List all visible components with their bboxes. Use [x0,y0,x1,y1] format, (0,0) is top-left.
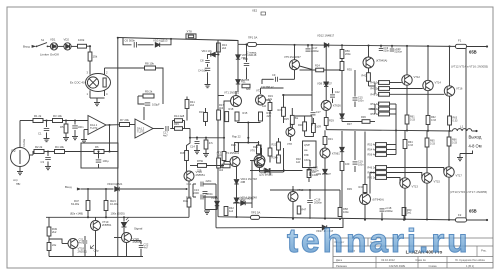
wire C1 down [46,133,48,139]
wire row2 b [44,151,55,153]
wire VD13 to VD14 [236,184,238,197]
wire R56 hang [341,45,343,49]
wire C4 down [98,164,100,168]
wire VD4 to C4a [208,55,211,60]
resistor R41 [297,206,301,214]
resistor R43 [363,185,367,193]
wire P2 bottom [19,167,21,172]
wire corner to VD18 line [215,219,217,228]
svg-text:10 кОм: 10 кОм [23,139,26,147]
wire R30 up [304,116,306,122]
wire VT6 base col [251,160,253,203]
wire stack4 feed v [369,173,371,194]
wire stack2 right a [390,103,397,105]
svg-text:VT16: VT16 [456,87,463,91]
resistor R47 [86,201,90,211]
svg-text:2N5551: 2N5551 [102,223,112,227]
svg-text:22к: 22к [52,243,57,247]
svg-text:VD9 1N4937: VD9 1N4937 [316,172,331,176]
wire R38 up [341,152,343,161]
svg-text:ХЕ2: ХЕ2 [252,9,258,13]
wire DA1.2 out [153,128,164,130]
wire out5 emitter [426,147,428,173]
wire out5 base wire [387,173,422,179]
wire VT5 collector [294,45,296,60]
svg-text:Размана: Размана [336,264,347,268]
wire out6 base wire [387,168,444,172]
capacitor C1 [44,128,50,130]
svg-text:R16: R16 [199,110,204,114]
wire C22 top wire [131,240,141,242]
svg-text:0.33: 0.33 [410,118,415,121]
wire C11C12 right col [215,184,217,219]
connector XT8 [186,34,196,39]
zener VD15 [215,201,219,205]
wire VD16 right [246,202,252,204]
svg-text:Выход: Выход [469,135,482,140]
title block row line 4 [333,262,493,264]
svg-text:R1 2k: R1 2k [34,114,42,118]
ground under C3 [45,167,51,170]
svg-text:C1?: C1? [316,110,321,114]
fuse F2 [456,218,467,222]
resistor R8 [145,66,156,70]
svg-text:3: 3 [87,71,89,75]
svg-text:R6: R6 [95,145,99,149]
svg-text:1: 1 [87,92,89,96]
resistor R57c [376,176,387,180]
node VD9 rail [324,218,326,220]
wire R27 up [291,108,293,115]
terminal +65V [486,45,488,47]
svg-text:VD2: VD2 [64,37,70,41]
node signal entry [196,137,198,139]
zener VD14 [234,198,238,202]
wire node to VD4 [215,54,218,56]
node feedback tap [108,124,110,126]
svg-text:VD3 КД513: VD3 КД513 [153,39,168,43]
title block divider d [417,257,419,269]
wire out4 base wire [387,178,401,184]
resistor R9 [143,94,154,98]
capacitor C22b [330,95,335,97]
inductor L1 [453,129,472,131]
wire stack2 tap [369,108,376,110]
op-amp DA1.1 output wire [106,124,120,126]
wire VT9 emitter up [324,145,326,149]
node limiter [89,45,91,47]
title block divider right [476,246,478,257]
wire emitter join [237,122,261,124]
svg-text:VD10 КД521: VD10 КД521 [107,182,123,186]
resistor R62 [426,116,430,125]
wire VAS vert 283 [283,95,285,107]
node row1 c [65,119,67,121]
ground under P2 [17,172,23,175]
diode VD18 [322,225,326,229]
svg-text:4н7: 4н7 [144,245,149,249]
capacitor C3 [45,157,51,159]
wire FNC drop [105,189,107,201]
svg-text:100к: 100к [343,210,349,214]
wire R4 to opto pin [89,61,91,69]
wire R47 to rail [87,211,89,218]
wire C9 row [262,78,274,80]
svg-text:КТ626: КТ626 [333,104,341,108]
wire C1 drop [46,121,48,128]
wire emitter center join [247,126,249,138]
node VT5 rail [293,44,295,46]
svg-text:R30: R30 [298,123,303,127]
wire VAS base row [282,94,312,96]
wire VD8 up [325,45,327,81]
node row2 [47,150,49,152]
wire R33 row right [207,165,225,167]
wire R28 down [312,133,314,138]
node rail R60 [403,219,405,221]
transistor VT1 [231,96,242,107]
resistor R51b [379,87,390,91]
svg-text:отгр: отгр [13,179,18,182]
wire VT10 down [292,202,294,219]
wire DA1.2 supply [143,107,145,120]
node stub right [170,38,172,40]
wire switch to VD1 [48,45,51,47]
svg-text:S1: S1 [41,38,45,42]
optocoupler pin 2 wire [104,68,106,74]
wire R66 up [448,131,450,137]
wire VT20 emitter [126,249,128,257]
wire R13 hang [205,138,207,140]
transistor VT6 [254,155,265,166]
wire col342 top [341,59,343,114]
svg-text:15k: 15k [93,55,98,59]
transistor VT14 out [423,80,433,90]
wire R50 down [48,251,50,257]
title block row line 3 [333,256,493,258]
transistor VT9 [320,148,330,158]
node out3 rail [448,45,450,47]
resistor R35 [340,62,344,71]
svg-text:47к: 47к [209,141,214,145]
svg-text:C1: C1 [38,132,42,136]
svg-text:C11: C11 [187,182,192,186]
svg-text:СЗУ2: СЗУ2 [304,160,310,162]
svg-text:R46: R46 [183,199,188,203]
resistor R42t [367,73,371,82]
wire VT3 base [224,161,230,163]
wire C6 stub left [123,38,132,45]
svg-text:ПР2 5А: ПР2 5А [251,211,260,215]
wire clip rail [46,216,130,218]
ground under R13 [203,154,209,157]
wire C14 hang [196,138,198,140]
potentiometer P2 wiper [19,150,21,164]
resistor R51c [379,92,390,96]
wire R19d top [278,138,280,142]
resistor R17 bus [217,110,221,120]
wire R37b down [308,178,310,183]
wire C4a down [207,72,209,84]
svg-text:1 (В 1): 1 (В 1) [466,264,474,268]
transistor VT12 driver [363,57,374,68]
transistor VT15 out [422,173,432,183]
svg-text:R18: R18 [229,107,234,111]
wire out5 collector [426,183,428,219]
wire R5 down [65,133,67,137]
resistor R3b [53,119,63,123]
wire R63 down [449,125,451,131]
transistor VT19 [91,221,101,231]
wire C11 right [203,183,216,185]
svg-text:Вход: Вход [23,45,30,49]
wire VD13 col [236,167,238,180]
wire row1 c [63,120,89,122]
op-amp DA1.1 [88,116,106,135]
wire mid row 190 [270,189,340,191]
wire NFB internal [81,151,94,153]
wire opto to ground [96,98,98,102]
capacitor C11 [201,182,203,187]
node C11 right [215,196,217,198]
wire VT19 up [95,217,97,220]
node output d [395,129,397,131]
resistor R38 [340,162,344,171]
wire C10 hang [246,44,248,62]
optocoupler pin 1 wire [89,90,91,98]
svg-text:100п: 100п [358,99,364,102]
potentiometer P2 [11,148,30,167]
svg-text:0.33: 0.33 [408,144,413,147]
resistor R30 [303,122,307,131]
svg-text:VT17: VT17 [456,174,463,178]
wire out4 collector [404,188,406,219]
wire R5 drop [65,121,67,125]
resistor R27 [290,115,294,124]
diode VD7 [236,80,240,84]
resistor R13 [204,140,208,149]
wire VD10 right [120,188,187,190]
svg-text:R42: R42 [362,74,367,78]
node VT16 base [185,188,187,190]
wire F1 to terminal [467,46,488,48]
node out6 rail [448,219,450,221]
svg-text:100k: 100k [78,38,85,42]
svg-text:(КТ940А): (КТ940А) [373,198,384,202]
transistor VT12 out [402,75,412,85]
wire C8a down [207,64,209,67]
bias block box [303,141,317,168]
node out5 rail [426,218,428,220]
node out4 rail [404,218,406,220]
wire VT9 collector down [324,158,326,169]
resistor R26 [282,107,286,116]
transistor VT11 [360,194,371,205]
resistor R31 [323,137,327,145]
wire R30 down [304,131,306,136]
resistor R19b [268,103,272,111]
svg-text:2: 2 [106,71,108,75]
svg-text:1к0: 1к0 [296,160,301,164]
svg-text:100µ: 100µ [103,159,109,163]
wire C21b down [309,172,311,177]
resistor R65 [425,138,429,147]
wire out2 base wire [390,88,423,90]
transistor VT17 out [444,167,454,177]
wire stack3 join [395,131,397,155]
svg-text:R8 10k: R8 10k [145,62,154,66]
transistor VT16 out [444,86,454,96]
wire R14p right [183,120,185,122]
wire VAS mid bottom row [269,168,271,175]
wire C3 drop [47,152,49,157]
wire VT5 emitter [300,66,313,70]
svg-text:R9 2k: R9 2k [145,90,153,94]
wire opto pin2 to bus [105,67,119,69]
resistor R4b [55,150,65,154]
connector XE2 [261,12,266,15]
ground C13 cluster [204,211,210,214]
wire R45 to VT16 [186,161,188,172]
capacitor C2 [72,126,78,128]
wire L1 to output [472,130,476,132]
svg-text:0.33: 0.33 [430,142,435,145]
node input2 a [87,188,89,190]
wire LED to VT20 [123,228,125,234]
wire stack4 feed [370,172,376,174]
svg-text:VD8 1N4937: VD8 1N4937 [317,82,332,86]
svg-text:R43: R43 [359,185,364,189]
node out1 rail [406,45,408,47]
wire R62 down [427,125,429,131]
wire R49 tap [49,239,62,244]
wire VD16 left [233,202,240,204]
wire C16 up [309,190,311,199]
wire clip rail to VT16 [130,216,189,218]
svg-text:100n: 100n [78,125,84,129]
wire stack3 left [375,145,377,155]
svg-text:2200: 2200 [193,191,199,195]
wire C22b down [332,99,334,104]
svg-text:R24: R24 [315,63,320,67]
clip arrow [91,245,95,249]
resistor R53c [379,112,390,116]
svg-text:(82к +14В): (82к +14В) [70,212,83,216]
wire R58 up [339,203,341,208]
svg-text:2N5551: 2N5551 [78,249,88,253]
svg-text:132М: 132М [312,174,318,177]
wire input2 [81,188,114,190]
wire R19de join [278,150,280,155]
svg-text:VT15: VT15 [434,180,441,184]
node driver rail [367,45,369,47]
wire R60 hang [403,216,405,220]
resistor R22e [257,145,261,154]
diode VD12 [324,43,328,47]
resistor R13a [217,43,221,52]
svg-text:100µF: 100µF [152,103,160,107]
wire VT7 emitter down [325,110,327,117]
wire C17s right [170,128,174,130]
wire VT11 collector down [364,205,366,220]
node emitter join [247,121,249,123]
resistor R52a [376,143,387,147]
capacitor C4 [96,160,102,162]
svg-text:100к (2005): 100к (2005) [111,212,125,216]
resistor R20 [235,143,239,152]
wire bottom rail [220,217,466,220]
resistor R21 [257,145,261,154]
op-amp DA1.2 [135,119,153,138]
svg-text:200к: 200к [345,52,351,56]
node out2 rail [427,45,429,47]
wire R30 row [295,115,312,117]
wire VD7 to VT1 [237,84,239,92]
svg-text:4: 4 [106,92,108,96]
ground speaker return [457,158,463,161]
wire C17 hang [307,45,309,48]
resistor R5 [64,124,68,133]
capacitor C20 [390,49,395,51]
capacitor C19b [353,162,358,164]
svg-text:C3: C3 [41,160,45,164]
node NFB [108,150,110,152]
node rail R56 [341,44,343,46]
transistor VT16 [184,171,194,181]
svg-text:L1: L1 [460,125,464,129]
wire R45u up [186,97,188,100]
svg-text:VT8: VT8 [287,142,292,146]
capacitor C6 [134,42,136,48]
wire main top rail [238,44,466,46]
wire VT16 down [188,181,190,198]
node VD5b [283,169,285,171]
wire R65 up [426,130,428,138]
svg-text:TL072: TL072 [137,129,145,133]
resistor R49 [47,227,51,236]
wire LED up [123,217,125,221]
svg-text:Ex COC 40: Ex COC 40 [70,81,85,85]
capacitor C19 [379,49,384,51]
svg-text:160: 160 [345,162,350,166]
transistor VT20 [122,233,132,243]
diode VD20 [340,114,344,118]
node emitter center [247,137,249,139]
svg-text:P2: P2 [11,149,15,153]
svg-text:100п: 100п [358,163,364,166]
wire stack1 feed [369,85,376,87]
svg-text:VD15: VD15 [211,196,218,200]
svg-text:3к3: 3к3 [219,106,224,110]
wire R64 up [404,130,406,139]
svg-text:R26: R26 [278,108,283,112]
wire C19b up [354,131,356,160]
resistor R22 [222,164,230,168]
svg-text:10-30к: 10-30к [110,202,119,206]
wire stack2 join [395,104,397,130]
wire stack2 right b [390,108,397,110]
wire VT8 top [289,123,291,128]
transistor VT7 [321,100,331,110]
svg-text:Рис.: Рис. [481,249,487,253]
node VAS [282,94,284,96]
wire VT2 collector row [261,87,284,89]
svg-text:4м7: 4м7 [163,133,168,137]
node row1 d [74,119,76,121]
node rail C19 [380,45,382,47]
svg-text:VT6: VT6 [250,149,255,153]
wire VD19 up [341,131,343,147]
